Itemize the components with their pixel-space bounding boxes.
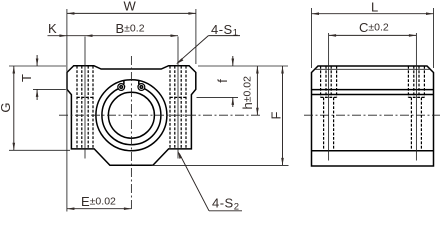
block vertical centerline [130,56,132,211]
bearing outer ring circle [102,86,161,145]
side view step line lower [312,94,434,96]
side view recess top line [315,68,430,70]
retaining ring gap mask [125,84,137,91]
side view step line upper [312,89,434,91]
dimension f line [232,56,234,66]
side hole right: seat [408,96,424,98]
dimension C line [329,34,417,36]
W extension line left (shared with E, full height) [66,9,68,212]
svg-text:T: T [19,74,34,82]
leader 4-S2 [179,154,209,211]
svg-text:W: W [124,0,137,14]
bore outer circle [96,80,167,151]
T extension top (shared with G) [9,65,66,67]
dimension K/B line [48,35,179,37]
svg-text:C±0.2: C±0.2 [359,20,389,35]
G extension bottom [9,149,70,151]
side hole right: screw walls [413,66,415,97]
retaining ring lug wall left [123,81,125,85]
hidden hole right: counterbore seat [170,96,186,98]
hidden hole left: counterbore walls [76,66,78,149]
side view horizontal centerline [304,114,440,116]
svg-text:f: f [215,79,230,83]
dimension L line [312,13,434,15]
hole centerline right [177,37,179,159]
svg-text:K: K [48,21,57,36]
side hole right: lower bore walls [410,97,412,150]
f bottom extension [197,96,239,98]
F bottom extension [152,164,289,166]
dimension F line [282,66,284,165]
bearing block outline (front view) [67,66,196,166]
side hole left: counterbore walls [320,66,322,97]
svg-text:B±0.2: B±0.2 [116,21,145,36]
L extension left [311,8,313,68]
svg-text:4-S2: 4-S2 [212,196,240,213]
right top extension line [198,65,288,67]
svg-text:L: L [371,0,378,15]
dimension E line [67,208,131,210]
hidden hole right: counterbore walls [169,66,171,149]
W extension line right [195,9,197,64]
hidden hole left: counterbore seat [77,96,93,98]
bore inner circle [108,92,154,138]
retaining ring ear left [118,84,125,91]
side hole right: counterbore walls [407,66,409,97]
hidden hole left: screw walls [81,66,83,149]
side hole right centerline [415,33,417,161]
retaining ring lug wall right [138,81,140,85]
svg-text:E±0.02: E±0.02 [81,194,116,209]
hole centerline left [84,37,86,159]
block horizontal centerline [59,114,262,116]
side view outline [312,66,434,166]
side view foot line [312,150,434,152]
dimension G line [13,66,15,150]
4-S2 underline [209,210,242,212]
side hole left: seat [321,96,337,98]
dimension T line [36,55,38,66]
dimension W line [67,12,196,14]
side hole left: screw walls [325,66,327,97]
leader 4-S1 [177,36,208,64]
svg-text:h±0.02: h±0.02 [240,76,255,110]
svg-text:G: G [0,102,13,112]
side hole left centerline [328,33,330,161]
dimension h line [256,66,258,115]
leader 4-S1 underline [208,35,240,37]
hidden hole right: screw walls [174,66,176,149]
side hole left: lower bore walls [323,97,325,150]
T extension bottom [33,88,66,90]
retaining ring ear right [138,84,145,91]
svg-text:F: F [268,112,283,120]
L extension right [433,8,435,68]
